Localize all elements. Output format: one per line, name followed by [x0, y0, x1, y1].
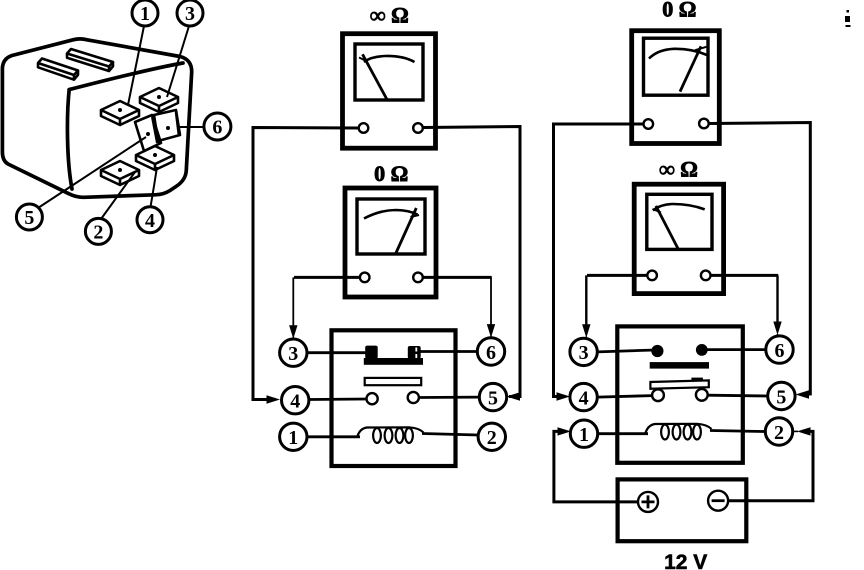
- svg-text:3: 3: [288, 343, 298, 365]
- right relay schematic box: [617, 326, 743, 462]
- wire M3 left terminal to node4: [554, 124, 644, 397]
- svg-text:5: 5: [24, 207, 34, 229]
- callout circle 5: [16, 204, 42, 230]
- svg-text:1: 1: [140, 3, 150, 25]
- right circuit wires: [554, 123, 814, 502]
- arrow into node6: [487, 324, 495, 338]
- wire M3 right terminal to node5: [709, 123, 811, 395]
- svg-text:∞ Ω: ∞ Ω: [659, 157, 698, 182]
- M1 scale arc: [364, 56, 415, 62]
- pin 1 blade: [101, 101, 139, 125]
- left armature bar (open): [365, 378, 422, 385]
- relay front-top edge: [69, 63, 183, 90]
- node 6: [766, 336, 793, 363]
- M1 terminals: [359, 123, 369, 133]
- svg-text:2: 2: [487, 427, 497, 449]
- leader line callout 4: [151, 167, 158, 207]
- node 6: [477, 338, 504, 365]
- left circuit wires: [253, 127, 520, 400]
- svg-text:2: 2: [93, 221, 103, 243]
- wire M4 left terminal to node3: [587, 274, 647, 277]
- ohmmeter M3 body: [632, 31, 720, 144]
- node 2: [478, 423, 505, 450]
- right armature bar (closed): [650, 380, 708, 388]
- arrow into node3: [289, 325, 297, 339]
- M4 terminals: [647, 271, 657, 281]
- wire M1 left terminal to node4: [253, 128, 359, 400]
- svg-text:∞ Ω: ∞ Ω: [370, 3, 409, 28]
- node 2: [765, 418, 792, 445]
- M3 terminals: [644, 119, 654, 129]
- wire circle5 to contact: [707, 394, 768, 398]
- svg-text:4: 4: [579, 387, 589, 409]
- wire circle6 to contact: [415, 350, 477, 353]
- wire circle4 to contact: [598, 396, 653, 398]
- right coil: [645, 424, 712, 440]
- M1 needle: [363, 54, 388, 99]
- battery plus terminal: [638, 492, 658, 512]
- left fixed contact squares: [365, 346, 378, 359]
- wire M1 right terminal to node5: [423, 127, 520, 397]
- wire battery minus to node2: [728, 431, 813, 500]
- svg-text:6: 6: [212, 117, 222, 139]
- callout circle 4: [137, 207, 163, 233]
- svg-text:6: 6: [486, 342, 496, 364]
- svg-text:5: 5: [488, 387, 498, 409]
- pin 6 centre blades: [135, 115, 161, 151]
- leader line callout 5: [38, 137, 146, 208]
- wire circle1 to coil: [598, 432, 648, 435]
- svg-text:12 V: 12 V: [664, 551, 707, 570]
- wire M2 right terminal to node6: [423, 276, 492, 279]
- top slot A: [38, 59, 78, 80]
- right movable contact circles: [652, 389, 664, 401]
- leader line callout 6: [179, 126, 204, 128]
- arrow into node4: [267, 395, 281, 403]
- wire circle2 to coil: [710, 431, 765, 432]
- right pin circles: [570, 336, 795, 448]
- M2 needle: [396, 208, 417, 254]
- left pin circles: [280, 338, 507, 451]
- wire circle5 to contact: [419, 396, 480, 399]
- arrow stems: [293, 334, 798, 431]
- M3 needle: [680, 46, 701, 91]
- svg-text:4: 4: [145, 210, 155, 232]
- relay body silhouette: [2, 39, 191, 197]
- left movable contact circles: [367, 393, 378, 404]
- left coil: [357, 427, 424, 443]
- ohmmeter M4 body: [634, 184, 723, 293]
- arrow into right node3: [582, 324, 590, 338]
- arrow into right node5: [796, 390, 810, 398]
- leader line callout 3: [167, 26, 189, 97]
- right fixed contact dots: [651, 345, 663, 357]
- wire circle4 to contact: [309, 398, 367, 401]
- left relay schematic box: [332, 330, 456, 466]
- arrow into right node6: [773, 322, 781, 336]
- ohmmeter M1 body: [343, 34, 436, 149]
- node 3: [280, 339, 307, 366]
- node 4: [282, 387, 309, 414]
- svg-text:0 Ω: 0 Ω: [662, 0, 696, 22]
- M3 scale arc: [649, 49, 707, 59]
- svg-text:3: 3: [185, 3, 195, 25]
- wire circle2 to coil: [422, 434, 478, 436]
- callout circle 6: [204, 113, 231, 140]
- wire circle3 to contact: [307, 351, 368, 354]
- page artifact top right: [845, 10, 851, 27]
- M4 scale arc: [653, 204, 705, 211]
- wire circle3 to contact dot: [598, 350, 656, 352]
- svg-text:1: 1: [288, 427, 298, 449]
- pin 4 blade: [136, 146, 174, 170]
- pin 2 blade: [101, 161, 139, 185]
- svg-text:1: 1: [579, 424, 589, 446]
- pin 3 blade: [140, 88, 178, 112]
- ohmmeter M2 body: [345, 188, 436, 297]
- leader line callout 1: [128, 26, 144, 105]
- top slot B: [67, 49, 113, 71]
- arrow into right node1: [558, 427, 572, 435]
- relay front-left vertical edge: [67, 90, 72, 189]
- wire battery plus to node1: [554, 431, 638, 502]
- node 1: [570, 420, 597, 447]
- svg-text:5: 5: [776, 386, 786, 408]
- callout circle 2: [85, 218, 111, 244]
- svg-text:4: 4: [290, 391, 300, 413]
- leader line callout 2: [101, 172, 135, 219]
- wire circle6 to contact dot: [703, 348, 766, 351]
- M2 terminals: [360, 273, 370, 283]
- M2 scale arc: [364, 210, 418, 219]
- M4 needle: [656, 206, 679, 250]
- node 5: [479, 383, 506, 410]
- arrow into right node2: [797, 427, 811, 435]
- right contact bar (solid): [650, 362, 709, 369]
- svg-text:6: 6: [775, 340, 785, 362]
- svg-text:3: 3: [579, 342, 589, 364]
- svg-text:0 Ω: 0 Ω: [374, 161, 408, 186]
- svg-text:2: 2: [774, 422, 784, 444]
- node 4: [570, 383, 597, 410]
- wire M2 left terminal to node3: [294, 276, 360, 279]
- arrow into right node4: [557, 392, 571, 400]
- battery minus terminal: [708, 491, 728, 511]
- wire circle1 to coil: [307, 435, 360, 438]
- arrow into node5: [507, 392, 521, 400]
- node 1: [280, 423, 307, 450]
- callout circle 3: [177, 0, 203, 26]
- node 3: [570, 338, 597, 365]
- callout circle 1: [132, 0, 158, 26]
- wire M4 right terminal to node6: [711, 274, 779, 277]
- battery box: [618, 479, 747, 541]
- node 5: [768, 382, 795, 409]
- left contact bar (solid): [364, 358, 423, 365]
